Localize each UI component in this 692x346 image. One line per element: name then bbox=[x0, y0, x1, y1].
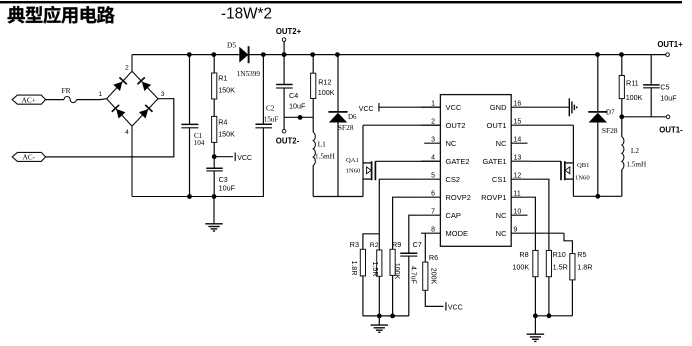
svg-text:OUT2-: OUT2- bbox=[276, 137, 300, 146]
wire sense ground rail left bbox=[363, 315, 409, 317]
wire sense ground rail right bbox=[535, 315, 572, 317]
pin 4 GATE2 bbox=[421, 160, 440, 162]
wire pin12 CS1 down to R10 bbox=[530, 179, 549, 250]
pin 10 NC bbox=[511, 214, 527, 216]
svg-text:C7: C7 bbox=[413, 240, 422, 249]
svg-text:150K: 150K bbox=[218, 129, 235, 138]
svg-text:1.8R: 1.8R bbox=[577, 262, 592, 271]
pin 11 ROVP1 bbox=[511, 196, 530, 198]
svg-text:3: 3 bbox=[161, 91, 165, 98]
node R8 bottom bbox=[533, 313, 538, 318]
svg-text:11: 11 bbox=[514, 190, 521, 197]
svg-text:D7: D7 bbox=[606, 109, 615, 117]
svg-text:100K: 100K bbox=[393, 263, 400, 280]
transistor QA1 1N60 bbox=[362, 125, 364, 196]
resistor R1 bbox=[213, 55, 215, 73]
svg-text:4.7uF: 4.7uF bbox=[410, 266, 417, 284]
svg-text:OUT1: OUT1 bbox=[486, 121, 506, 130]
svg-text:R6: R6 bbox=[429, 253, 438, 262]
AC+ input tag bbox=[12, 95, 45, 104]
bridge rectifier bbox=[107, 71, 132, 99]
svg-text:10: 10 bbox=[514, 208, 522, 215]
wire pin13 GATE1 to QB1 gate bbox=[530, 160, 561, 162]
svg-text:1N5399: 1N5399 bbox=[237, 70, 261, 78]
svg-text:C5: C5 bbox=[660, 82, 669, 91]
node C3 bottom bbox=[212, 194, 217, 199]
wire OUT2- to L1 node bbox=[284, 116, 313, 118]
wire bridge node2 to top rail bbox=[131, 55, 133, 72]
svg-text:ROVP1: ROVP1 bbox=[481, 193, 506, 202]
resistor R5 bbox=[570, 254, 575, 280]
wire bridge node4 down to ground rail bbox=[131, 126, 133, 196]
pin 15 OUT1 bbox=[511, 124, 530, 126]
svg-text:ROVP2: ROVP2 bbox=[446, 193, 471, 202]
svg-text:R1: R1 bbox=[218, 74, 227, 83]
svg-text:AC-: AC- bbox=[23, 153, 36, 162]
IC U1 box bbox=[440, 95, 511, 247]
svg-text:NC: NC bbox=[446, 139, 457, 148]
capacitor C1 bbox=[189, 55, 191, 125]
wire pin6 ROVP2 down to R9 bbox=[393, 197, 421, 249]
svg-text:2: 2 bbox=[125, 64, 129, 71]
wire AC- to bridge node3 bbox=[46, 99, 174, 157]
svg-text:D5: D5 bbox=[227, 41, 236, 50]
capacitor C3 bbox=[213, 157, 215, 169]
svg-text:R12: R12 bbox=[318, 78, 331, 87]
wire OUT2 return rail bbox=[313, 196, 363, 198]
pin 13 GATE1 bbox=[511, 160, 530, 162]
resistor R12 bbox=[312, 55, 314, 74]
node D7 top bbox=[595, 52, 600, 57]
pin 16 GND bbox=[511, 106, 530, 108]
node R10 bottom bbox=[547, 313, 552, 318]
svg-text:1N60: 1N60 bbox=[575, 175, 590, 182]
resistor R9 bbox=[390, 249, 395, 275]
node R2 bottom bbox=[377, 314, 382, 319]
svg-text:4: 4 bbox=[125, 129, 129, 136]
node C4 rail bbox=[282, 52, 287, 57]
wire pin2 OUT2 to QA1 bbox=[363, 124, 440, 126]
svg-text:OUT1-: OUT1- bbox=[659, 126, 683, 135]
resistor R10 bbox=[546, 250, 551, 276]
svg-text:15: 15 bbox=[514, 118, 522, 125]
svg-text:150K: 150K bbox=[218, 86, 235, 95]
bridge diode 3-2 bbox=[142, 82, 151, 91]
chassis ground right bbox=[568, 98, 570, 116]
OUT1- terminal bbox=[666, 115, 670, 119]
pin 1 VCC bbox=[421, 106, 440, 108]
node C1 bottom bbox=[187, 194, 192, 199]
ground at sense rail right bbox=[534, 316, 536, 334]
wire R11 to L2 bbox=[621, 99, 623, 137]
svg-text:-18W*2: -18W*2 bbox=[221, 6, 272, 23]
wire pin4 GATE2 to QA1 gate bbox=[375, 160, 440, 162]
svg-text:OUT2: OUT2 bbox=[446, 121, 466, 130]
wire pin9 to R5 bbox=[564, 233, 572, 253]
svg-text:1.5mH: 1.5mH bbox=[626, 160, 646, 168]
svg-text:12: 12 bbox=[514, 172, 522, 179]
pin 3 NC bbox=[424, 142, 440, 144]
svg-text:200K: 200K bbox=[429, 268, 436, 285]
svg-text:1.5mH: 1.5mH bbox=[315, 153, 335, 161]
svg-text:VCC: VCC bbox=[446, 103, 462, 112]
bridge diode 1-2 bbox=[113, 82, 122, 91]
resistor R4 bbox=[213, 99, 215, 116]
svg-text:C2: C2 bbox=[266, 105, 275, 113]
svg-text:CS2: CS2 bbox=[446, 175, 461, 184]
pin 2 OUT2 bbox=[421, 124, 440, 126]
svg-text:100K: 100K bbox=[626, 93, 643, 102]
AC- input tag bbox=[12, 152, 45, 161]
capacitor C2 bbox=[262, 55, 264, 125]
wire pin5 CS2 down bbox=[379, 179, 421, 250]
svg-text:CS1: CS1 bbox=[492, 175, 507, 184]
svg-text:1: 1 bbox=[99, 91, 103, 98]
svg-text:5: 5 bbox=[431, 172, 435, 179]
svg-text:16: 16 bbox=[514, 100, 522, 107]
svg-text:C4: C4 bbox=[289, 91, 298, 100]
svg-text:NC: NC bbox=[496, 139, 507, 148]
node D6 top bbox=[335, 52, 340, 57]
VCC tap at R4/C3 bbox=[214, 156, 233, 158]
svg-text:R4: R4 bbox=[218, 117, 227, 126]
svg-text:OUT2+: OUT2+ bbox=[276, 27, 302, 36]
pin 14 NC bbox=[511, 142, 527, 144]
svg-text:FR: FR bbox=[62, 86, 71, 95]
wire pin7 CAP down to C7 bbox=[409, 215, 421, 253]
pin 6 ROVP2 bbox=[421, 196, 440, 198]
resistor R2 bbox=[377, 250, 382, 276]
wire pin11 ROVP1 down to R8 bbox=[530, 197, 535, 250]
svg-text:14: 14 bbox=[514, 136, 522, 143]
resistor R11 bbox=[621, 55, 623, 76]
svg-text:AC+: AC+ bbox=[22, 95, 36, 104]
svg-text:VCC: VCC bbox=[448, 304, 463, 311]
node OUT1- junction bbox=[619, 114, 624, 119]
svg-text:15uF: 15uF bbox=[264, 115, 279, 123]
ground at sense rail left bbox=[378, 316, 380, 325]
wire fuse to bridge node1 bbox=[76, 99, 100, 101]
svg-text:3: 3 bbox=[431, 136, 435, 143]
svg-text:R3: R3 bbox=[350, 240, 359, 249]
svg-text:QA1: QA1 bbox=[346, 157, 359, 164]
inductor L2 1.5mH bbox=[622, 137, 624, 170]
svg-text:D6: D6 bbox=[348, 113, 357, 121]
svg-text:10uF: 10uF bbox=[289, 102, 306, 111]
wire pin8 MODE down to R6 bbox=[424, 233, 426, 262]
svg-text:10uF: 10uF bbox=[219, 183, 236, 192]
svg-text:13: 13 bbox=[514, 154, 522, 161]
bridge diode 4-1 bbox=[116, 109, 125, 119]
svg-text:1.8R: 1.8R bbox=[350, 261, 357, 276]
svg-text:OUT1+: OUT1+ bbox=[657, 40, 683, 49]
svg-text:2: 2 bbox=[431, 118, 435, 125]
inductor L1 1.5mH bbox=[313, 132, 315, 165]
resistor R3 bbox=[360, 249, 365, 276]
svg-text:SF28: SF28 bbox=[602, 126, 618, 135]
svg-text:1.5R: 1.5R bbox=[553, 262, 568, 271]
svg-text:100K: 100K bbox=[512, 262, 529, 271]
node R9 bottom bbox=[390, 314, 395, 319]
node R1 top bbox=[211, 52, 216, 57]
OUT2+ terminal bbox=[282, 38, 286, 42]
svg-text:7: 7 bbox=[431, 208, 435, 215]
resistor R6 bbox=[423, 262, 428, 290]
svg-text:R2: R2 bbox=[370, 242, 379, 249]
title 典型应用电路 (drawn as glyph paths) bbox=[8, 6, 115, 24]
svg-text:8: 8 bbox=[431, 226, 435, 233]
svg-text:NC: NC bbox=[496, 211, 507, 220]
transistor QB1 1N60 bbox=[572, 125, 574, 196]
svg-text:R8: R8 bbox=[519, 250, 528, 259]
diode D7 SF28 bbox=[597, 55, 599, 112]
node OUT2+ rail bbox=[282, 52, 287, 57]
pin 7 CAP bbox=[421, 214, 440, 216]
wire pin15 OUT1 to QB1 bbox=[530, 124, 573, 126]
wire R6 to VCC bbox=[425, 290, 443, 306]
wire pin16 GND to chassis bbox=[530, 106, 569, 108]
svg-text:9: 9 bbox=[514, 226, 518, 233]
OUT1+ terminal bbox=[666, 53, 670, 57]
svg-text:R10: R10 bbox=[553, 250, 566, 259]
svg-text:GND: GND bbox=[490, 103, 507, 112]
wire QB1 source rail bbox=[573, 195, 621, 197]
diode D6 SF28 bbox=[337, 55, 339, 112]
svg-text:100K: 100K bbox=[318, 88, 335, 97]
bridge diode 4-3 bbox=[139, 109, 148, 118]
wire OUT1- line bbox=[622, 116, 666, 118]
OUT2- terminal bbox=[282, 129, 286, 133]
svg-text:R11: R11 bbox=[626, 79, 639, 88]
wire R3 branch bbox=[363, 234, 379, 250]
svg-text:104: 104 bbox=[194, 139, 205, 147]
svg-text:1N60: 1N60 bbox=[346, 168, 361, 175]
diode D5 1N5399 bbox=[239, 47, 248, 63]
wire R12 to L1 bbox=[312, 99, 314, 133]
svg-text:MODE: MODE bbox=[446, 229, 469, 238]
svg-text:1.5R: 1.5R bbox=[371, 262, 378, 277]
svg-text:R9: R9 bbox=[392, 240, 401, 249]
node R11 top bbox=[619, 52, 624, 57]
svg-text:CAP: CAP bbox=[446, 211, 461, 220]
top border rule bbox=[0, 1, 682, 3]
svg-text:L1: L1 bbox=[318, 140, 327, 149]
svg-text:4: 4 bbox=[431, 154, 435, 161]
svg-text:GATE1: GATE1 bbox=[482, 157, 506, 166]
svg-text:VCC: VCC bbox=[237, 155, 252, 162]
node VCC tap bbox=[212, 154, 217, 159]
node C2 top bbox=[261, 52, 266, 57]
svg-text:L2: L2 bbox=[631, 146, 640, 155]
capacitor C5 bbox=[650, 55, 652, 85]
svg-text:NC: NC bbox=[496, 229, 507, 238]
pin 9 NC bbox=[511, 232, 564, 234]
svg-text:SF28: SF28 bbox=[338, 123, 354, 132]
svg-text:QB1: QB1 bbox=[577, 162, 589, 169]
svg-text:GATE2: GATE2 bbox=[446, 157, 470, 166]
svg-text:VCC: VCC bbox=[359, 106, 374, 113]
node R12 top bbox=[310, 52, 315, 57]
pin 12 CS1 bbox=[511, 178, 530, 180]
svg-text:1: 1 bbox=[431, 100, 435, 107]
node D7 bottom bbox=[595, 194, 600, 199]
svg-text:R5: R5 bbox=[577, 250, 586, 259]
capacitor C4 bbox=[283, 55, 285, 85]
capacitor C7 bbox=[400, 252, 417, 254]
wire top +rail bbox=[132, 54, 666, 56]
pin 5 CS2 bbox=[421, 178, 440, 180]
ground at C3 bbox=[213, 197, 215, 224]
svg-text:6: 6 bbox=[431, 190, 435, 197]
svg-text:10uF: 10uF bbox=[660, 94, 677, 103]
node on OUT2- wire bbox=[298, 115, 303, 120]
wire left ground rail bbox=[132, 196, 264, 198]
pin 8 MODE bbox=[421, 232, 440, 234]
resistor R8 bbox=[533, 250, 538, 276]
node C1 top bbox=[187, 52, 192, 57]
